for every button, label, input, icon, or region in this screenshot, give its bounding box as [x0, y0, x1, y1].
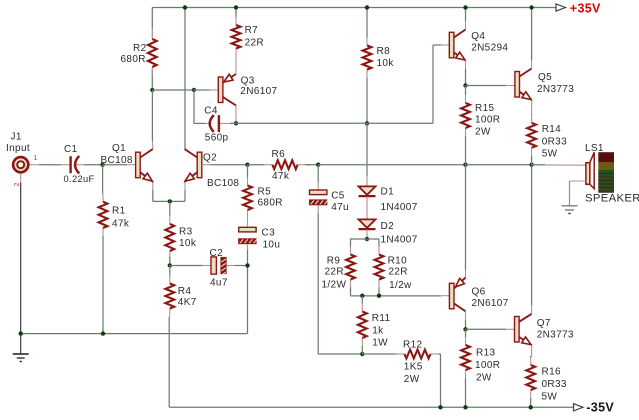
svg-text:2W: 2W: [476, 373, 492, 384]
node C4 branch: [192, 88, 196, 92]
ground symbol left: [13, 353, 29, 355]
resistor R7 22R: [235, 17, 237, 25]
node Q4 collector rail junction: [463, 5, 467, 9]
wire C2 left: [170, 265, 202, 267]
wire bias node branch: [350, 238, 379, 240]
svg-text:C3: C3: [262, 227, 276, 238]
capacitor C4: [210, 115, 214, 132]
svg-text:2N6107: 2N6107: [240, 86, 277, 97]
wire Q2 base to R5 node: [202, 164, 211, 166]
wire ground rail: [21, 333, 248, 335]
node Q2 base/R5/R6 junction: [245, 163, 249, 167]
resistor R1 47k: [102, 194, 104, 202]
capacitor C3 10u: [239, 227, 256, 232]
speaker LS1: [590, 152, 594, 188]
wire R1 top: [102, 165, 104, 194]
wire to R12: [362, 353, 396, 355]
svg-text:1W: 1W: [372, 338, 388, 349]
svg-text:D2: D2: [381, 221, 395, 232]
wire speaker to ground: [570, 180, 586, 182]
node D2/R9/R10 junction: [365, 237, 369, 241]
svg-text:22R: 22R: [325, 267, 344, 278]
svg-text:5W: 5W: [542, 148, 558, 159]
svg-text:C4: C4: [204, 106, 218, 117]
svg-text:R8: R8: [377, 46, 391, 57]
svg-text:Q3: Q3: [241, 76, 255, 87]
connector J1: [13, 157, 28, 172]
node C5 output junction: [316, 163, 320, 167]
wire Q7 collector up to output: [531, 306, 533, 314]
transistor Q7 2N3773: [515, 317, 520, 343]
node R8 rail junction: [365, 5, 369, 9]
node C2 junction: [168, 263, 172, 267]
resistor R5 680R: [247, 178, 249, 186]
node R14/Q7 collector output junction: [529, 163, 533, 167]
svg-text:R14: R14: [542, 124, 561, 135]
wire Q7 emitter to R16: [531, 345, 533, 357]
node R8 bottom junction: [365, 121, 369, 125]
svg-text:2W: 2W: [404, 374, 420, 385]
svg-text:R11: R11: [372, 313, 391, 324]
svg-text:1K5: 1K5: [404, 362, 423, 373]
power +35V symbol: [556, 4, 566, 11]
wire J1 to C1: [29, 164, 39, 166]
wire C3 bottom stub: [247, 244, 249, 250]
svg-text:+35V: +35V: [570, 2, 601, 16]
svg-text:5W: 5W: [542, 392, 558, 403]
svg-text:R4: R4: [178, 286, 192, 297]
node R7 rail junction: [234, 5, 238, 9]
wire R7 bottom to Q3 emitter: [235, 57, 237, 74]
node Q3 collector/C4 junction: [234, 121, 238, 125]
wire R2 top to +35V rail: [151, 8, 153, 30]
wire C1 to Q1 base: [76, 164, 85, 166]
resistor R12 1K5: [397, 353, 405, 355]
svg-text:R5: R5: [258, 187, 272, 198]
wire C4 branch down: [193, 90, 195, 123]
node R10 bottom junction: [377, 294, 381, 298]
svg-text:R12: R12: [403, 339, 422, 350]
wire node A down to Q1 collector: [151, 90, 153, 141]
wire Q4 emitter down: [465, 60, 467, 69]
wire C4 right to node: [220, 122, 231, 124]
wire Q2 emitter down: [184, 182, 186, 191]
wire C5 bottom to R12 net: [317, 206, 319, 214]
node R13 rail junction: [463, 405, 467, 409]
wire R2 bottom to node A: [151, 67, 153, 75]
svg-text:2W: 2W: [475, 127, 491, 138]
node R12 rail junction: [438, 405, 442, 409]
wire J1 pin2 to ground: [20, 174, 22, 183]
svg-text:4K7: 4K7: [178, 297, 197, 308]
resistor R4 4K7: [169, 276, 171, 284]
diode D2 1N4007: [359, 219, 376, 227]
svg-text:1: 1: [34, 155, 38, 162]
svg-text:680R: 680R: [121, 54, 146, 65]
svg-text:100R: 100R: [475, 115, 500, 126]
svg-text:2N6107: 2N6107: [472, 298, 509, 309]
svg-text:C1: C1: [64, 144, 78, 155]
wire output rail: [318, 164, 465, 166]
svg-text:R9: R9: [327, 256, 341, 267]
svg-text:1/2w: 1/2w: [389, 280, 412, 291]
svg-text:47u: 47u: [331, 202, 349, 213]
svg-text:Q1: Q1: [112, 143, 126, 154]
svg-text:BC108: BC108: [101, 155, 133, 166]
resistor R3 10k: [169, 216, 171, 224]
wire Q1 emitter down: [152, 182, 154, 191]
node Q2 collector rail junction: [183, 5, 187, 9]
resistor R9 22R: [350, 247, 352, 255]
wire R6 to output node: [306, 164, 319, 166]
wire C3-ground vertical: [247, 249, 249, 334]
svg-text:R1: R1: [112, 206, 126, 217]
svg-text:Q4: Q4: [471, 31, 485, 42]
transistor Q5 2N3773: [515, 72, 520, 98]
svg-text:2N3773: 2N3773: [537, 84, 574, 95]
svg-text:1/2W: 1/2W: [322, 279, 347, 290]
resistor R13 100R: [465, 337, 467, 345]
node R15/Q6 emitter output junction: [463, 163, 467, 167]
node Q6 collector/R13/Q7 base junction: [463, 327, 467, 331]
svg-text:10u: 10u: [263, 240, 281, 251]
svg-text:Q2: Q2: [203, 153, 217, 164]
wire R4 bottom to -35V rail: [168, 317, 170, 408]
svg-text:SPEAKER: SPEAKER: [585, 193, 639, 205]
svg-text:47k: 47k: [112, 219, 130, 230]
resistor R8 10k: [366, 37, 368, 45]
svg-text:10k: 10k: [179, 238, 197, 249]
svg-text:-35V: -35V: [586, 400, 614, 414]
svg-text:R3: R3: [179, 227, 193, 238]
wire Q3 collector down: [235, 106, 237, 124]
svg-text:BC108: BC108: [207, 178, 239, 189]
svg-text:C5: C5: [331, 190, 345, 201]
svg-text:LS1: LS1: [585, 143, 604, 154]
capacitor C2 4u7: [211, 257, 216, 274]
svg-text:680R: 680R: [258, 197, 283, 208]
wire Q6 collector down: [465, 311, 467, 320]
svg-text:R2: R2: [133, 43, 147, 54]
svg-text:0.22uF: 0.22uF: [64, 174, 95, 184]
wire R9/R10 bottom rail to Q6 base: [351, 295, 442, 297]
svg-text:Q7: Q7: [537, 318, 551, 329]
wire Q2 collector to +35V rail: [184, 8, 186, 150]
svg-text:47k: 47k: [272, 171, 290, 182]
node C2/C3 ground junction: [245, 263, 249, 267]
resistor R6 47k: [264, 164, 272, 166]
capacitor C1 0.22uF: [69, 156, 71, 173]
wire Q4 collector to rail: [465, 21, 467, 30]
wire to Q7 base: [466, 328, 507, 330]
resistor R11 1k: [361, 304, 363, 312]
resistor R16 0R33: [530, 357, 532, 365]
node Q4 emitter/R15/Q5 base junction: [463, 83, 467, 87]
svg-text:0R33: 0R33: [542, 379, 567, 390]
svg-text:560p: 560p: [205, 132, 229, 143]
node J1 ground rail junction: [19, 331, 23, 335]
svg-text:D1: D1: [381, 187, 395, 198]
svg-text:22R: 22R: [245, 38, 264, 49]
transistor Q1 BC108: [136, 152, 141, 178]
wire Q5 collector to rail: [531, 60, 533, 69]
transistor Q3 2N6107: [218, 77, 223, 103]
node R1 ground junction: [101, 331, 105, 335]
power -35V symbol: [574, 404, 584, 411]
svg-text:100R: 100R: [475, 360, 500, 371]
svg-text:2N5294: 2N5294: [471, 43, 508, 54]
svg-text:Input: Input: [6, 143, 30, 154]
svg-text:Q6: Q6: [472, 286, 486, 297]
svg-text:1k: 1k: [372, 326, 384, 337]
wire +35V top rail: [152, 7, 556, 9]
svg-text:1N4007: 1N4007: [381, 202, 418, 213]
node R11 branch junction: [360, 294, 364, 298]
node Q5 collector rail junction: [529, 5, 533, 9]
svg-text:10k: 10k: [377, 58, 395, 69]
wire -35V bottom rail: [169, 406, 573, 408]
svg-text:R15: R15: [475, 103, 494, 114]
transistor Q4 2N5294: [449, 32, 454, 58]
wire R12 right down to -35V rail: [440, 354, 442, 407]
wire node A to Q3 base: [152, 89, 185, 91]
node input (C1/R1/Q1): [100, 163, 104, 167]
node emitter tail junction: [168, 199, 172, 203]
speaker level stripes: [598, 152, 614, 162]
resistor R14 0R33: [531, 115, 533, 123]
wire node to Q4 base: [236, 122, 433, 124]
wire R5 to C3: [247, 218, 249, 227]
svg-text:Q5: Q5: [538, 72, 552, 83]
svg-text:R16: R16: [542, 367, 561, 378]
svg-text:2N3773: 2N3773: [537, 330, 574, 341]
wire R8 node down to D1: [366, 123, 368, 176]
ground symbol right: [562, 205, 578, 207]
resistor R10 22R: [378, 247, 380, 255]
wire node to Q1 base: [103, 164, 127, 166]
svg-text:0R33: 0R33: [542, 136, 567, 147]
wire D1 to D2: [366, 197, 368, 220]
wire output down to Q6 emitter: [465, 165, 467, 270]
svg-text:1N4007: 1N4007: [381, 235, 418, 246]
node A (R2/Q1 collector/Q3 base): [150, 88, 154, 92]
svg-text:J1: J1: [11, 132, 22, 143]
svg-text:R6: R6: [272, 149, 286, 160]
wire to Q5 base: [466, 85, 507, 87]
wire R3 to C2 node: [169, 257, 171, 266]
wire output rail right: [466, 164, 532, 166]
resistor R15 100R: [465, 95, 467, 103]
node R11/R12 junction: [360, 352, 364, 356]
svg-text:R10: R10: [388, 256, 407, 267]
wire C5 top: [317, 165, 319, 183]
svg-text:2: 2: [14, 182, 21, 186]
wire Q5 emitter to R14: [531, 100, 533, 115]
svg-text:22R: 22R: [388, 267, 407, 278]
capacitor C5 47u: [310, 190, 327, 195]
svg-text:C2: C2: [210, 248, 224, 259]
node R16 rail junction: [529, 405, 533, 409]
transistor Q2 BC108: [197, 152, 202, 178]
svg-text:4u7: 4u7: [210, 278, 228, 289]
svg-text:R13: R13: [476, 347, 495, 358]
wire output to speaker: [532, 164, 545, 166]
wire C2 right: [227, 265, 235, 267]
wire emitter rail: [153, 200, 185, 202]
diode D1 1N4007: [359, 186, 376, 194]
transistor Q6 2N6107: [449, 283, 454, 309]
resistor R2 680R: [151, 31, 153, 39]
wire D2 to bias node: [366, 230, 368, 239]
svg-text:R7: R7: [245, 25, 259, 36]
